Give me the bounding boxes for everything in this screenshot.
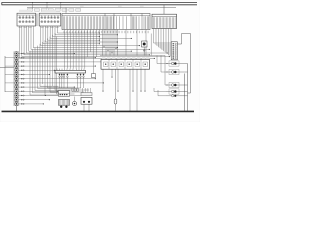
wire P4 feeder: [154, 88, 166, 96]
terminal strip pins: [59, 73, 85, 88]
horn B1: [72, 97, 76, 106]
connector C1: [17, 10, 36, 26]
wire bus labels: [80, 5, 144, 6]
wire right column feeders: [157, 56, 168, 86]
connector C2: [39, 10, 61, 26]
connector pin number labels: [19, 27, 59, 28]
wire relay box drops: [102, 69, 145, 111]
lamp group L1-L13: [5, 52, 19, 106]
wire group U1 to connector C5: [154, 29, 172, 58]
switch SW2: [72, 89, 79, 92]
sensor S1: [142, 41, 148, 56]
wire mid feeder bus: [27, 7, 176, 9]
connector strip X1 pin labels: [64, 31, 149, 33]
node bus junctions: [32, 2, 66, 14]
switch SW1: [58, 91, 69, 97]
connector C6: [92, 62, 96, 78]
wire stub connectors below X1: [103, 30, 116, 54]
connector strip X1 pins left: [63, 16, 103, 29]
connector pair P2: [166, 69, 188, 74]
wire inter-box links: [37, 14, 38, 27]
connector pair P5: [166, 95, 188, 97]
wire fan from C1: [20, 26, 171, 59]
wire lamp chain left rail: [0, 56, 14, 92]
wire second stage drops: [30, 33, 89, 96]
connector pair P1: [166, 61, 188, 66]
terminal strip TS1: [55, 69, 86, 73]
connector strip X1 pins right: [106, 16, 148, 29]
wire right riser C: [184, 74, 186, 112]
connector pair P4: [166, 89, 188, 94]
connector C5: [171, 42, 177, 60]
wire top bus 15: [2, 4, 198, 6]
relay box RB1: [101, 59, 150, 69]
fuse F9: [114, 69, 117, 111]
relay box pin labels: [102, 57, 149, 58]
wire right riser A: [187, 64, 189, 112]
fuse label row: [28, 9, 81, 12]
wire fan from C2: [41, 26, 140, 46]
wire bus start tick: [1, 3, 3, 5]
connector pair P3: [166, 82, 188, 87]
wire right riser B: [188, 34, 191, 94]
ground bus: [2, 110, 195, 112]
wire X1 tail drops: [65, 30, 166, 69]
wire lamp chain rail: [15, 52, 17, 112]
wire top bus 30: [2, 2, 198, 4]
page frame: [0, 0, 200, 122]
wire fan from lamp chain: [19, 53, 104, 105]
wire C5 output: [177, 34, 190, 45]
motor M1: [58, 100, 69, 108]
connector strip X1 outline: [62, 14, 150, 30]
control unit U1: [152, 5, 177, 29]
relay K1: [81, 88, 92, 111]
